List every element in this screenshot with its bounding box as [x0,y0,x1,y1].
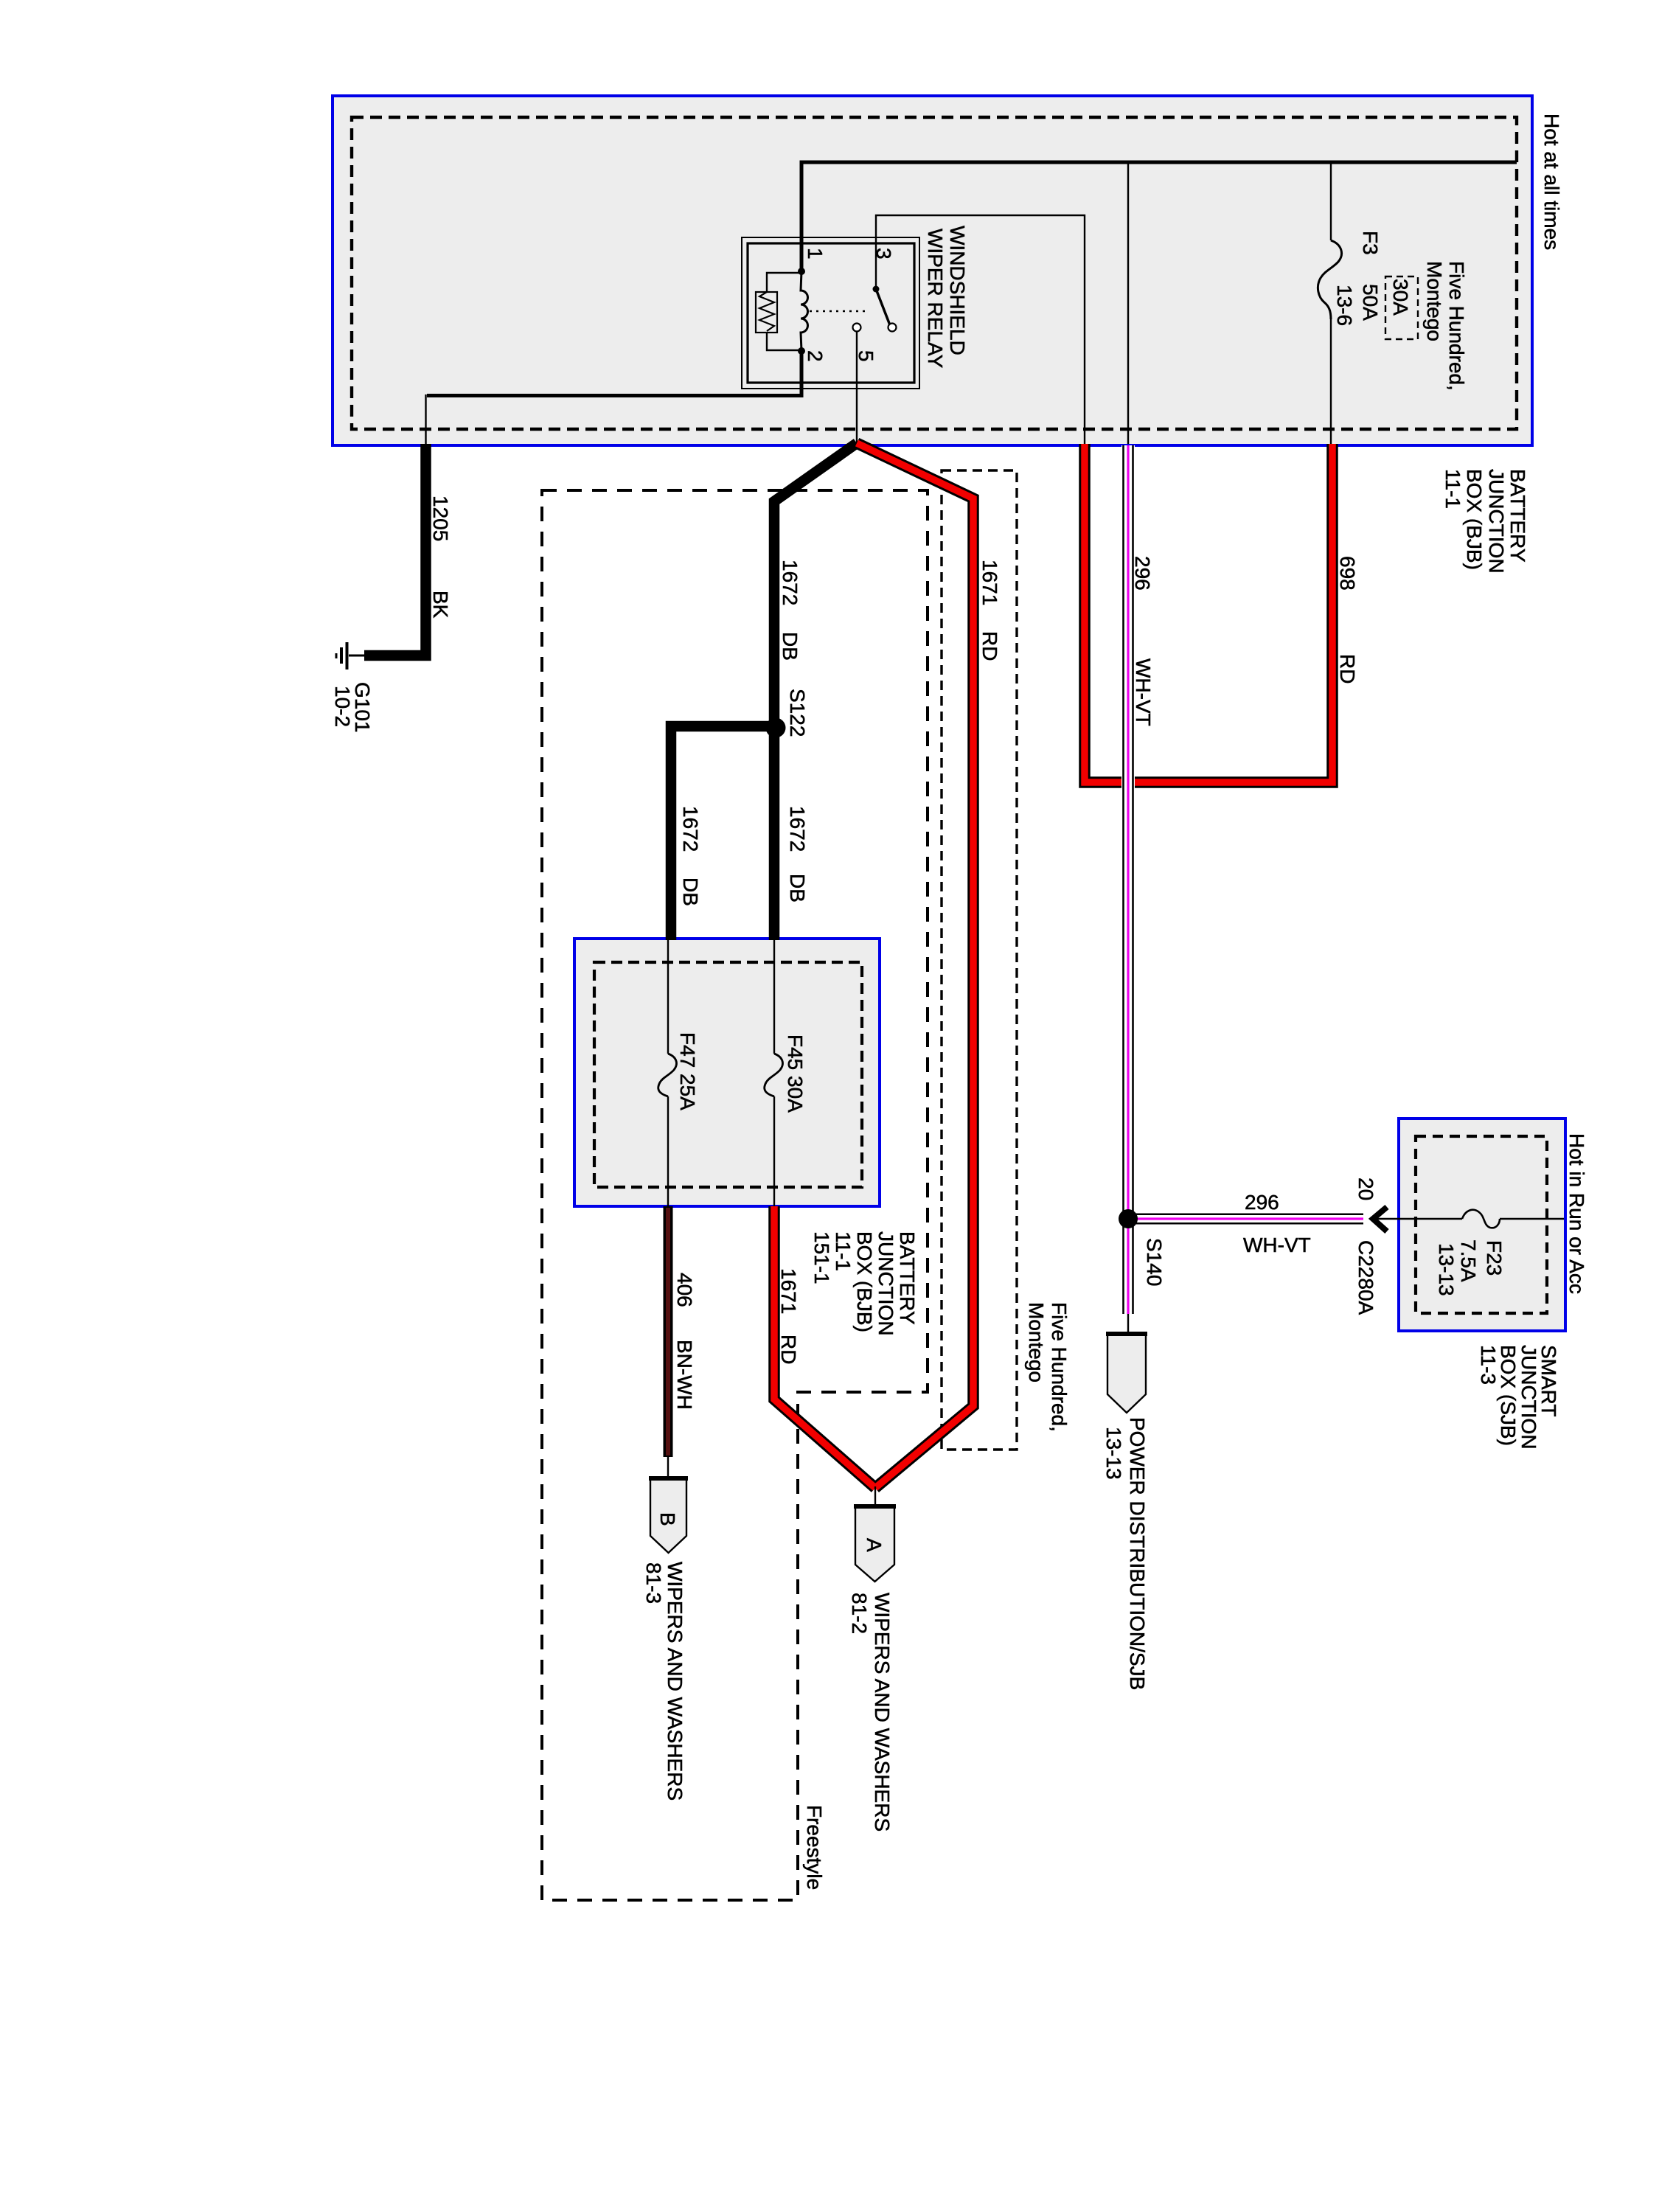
SJB dashed inner border [1416,1136,1547,1313]
svg-text:5: 5 [855,350,877,362]
svg-text:1: 1 [804,248,827,260]
wire 1671 RD right core [857,443,973,1488]
svg-text:296: 296 [1245,1191,1279,1214]
wire pin2 to ground exit [427,352,801,396]
wire 296 WH-VT magenta stripe [1127,445,1129,1314]
Five Hundred Montego dashed box [942,470,1017,1450]
relay terminal dot pin2 [798,347,805,355]
battery junction box BJB (gray box) [333,96,1532,445]
svg-text:7.5A: 7.5A [1457,1239,1480,1282]
wire 296 WH-VT left black line [1122,445,1124,1314]
relay resistor R [756,292,777,333]
svg-text:11-3: 11-3 [1477,1345,1500,1385]
svg-text:1672: 1672 [679,806,702,852]
svg-text:296: 296 [1131,556,1154,591]
svg-text:2: 2 [804,350,827,362]
Freestyle dashed box [542,490,928,1900]
fuse box dashed inner border [594,962,862,1187]
junction S122 [766,718,786,738]
smart junction box SJB (gray box) [1399,1119,1565,1331]
connector arrow B [650,1478,686,1553]
svg-text:1671: 1671 [777,1268,800,1314]
svg-text:JUNCTION: JUNCTION [1485,469,1508,574]
wire 406 BN-WH casing [664,1206,673,1457]
fuse F47 25A [658,1054,677,1096]
wire 698 RD casing [1085,444,1332,782]
connector arrow POWER DISTRIBUTION [1107,1334,1146,1413]
svg-text:C2280A: C2280A [1354,1240,1377,1315]
svg-text:WH-VT: WH-VT [1132,658,1155,726]
wire F3 branch bottom [1330,319,1332,444]
svg-text:151-1: 151-1 [810,1231,833,1284]
svg-text:BATTERY: BATTERY [1506,469,1529,563]
svg-text:S122: S122 [786,689,809,737]
svg-text:698: 698 [1336,556,1359,591]
wire 1671 RD left casing [774,1206,875,1488]
wire 296 WH-VT white underlay [1121,445,1135,1314]
svg-text:Hot at all times: Hot at all times [1540,114,1563,250]
wire pin5 down [856,331,858,443]
svg-text:F47 25A: F47 25A [676,1032,699,1110]
wire S140 to arrow thin [1127,1314,1129,1334]
relay pin5 circle [853,324,861,332]
fuse box BJB second (gray box) [574,939,880,1206]
svg-text:DB: DB [679,877,702,906]
fuse F45 30A [765,1054,783,1096]
svg-text:Freestyle: Freestyle [803,1805,826,1890]
wire F47 inside fusebox [667,939,669,1054]
svg-text:BK: BK [429,591,452,619]
svg-text:Montego: Montego [1025,1302,1048,1382]
wire 296 WH-VT horizontal top black [1124,1213,1364,1215]
svg-text:F23: F23 [1483,1240,1506,1276]
svg-text:WIPER RELAY: WIPER RELAY [924,229,947,369]
wire pin1 feed (hot at all times) [801,162,1517,271]
svg-text:81-2: 81-2 [848,1593,871,1634]
wire F45 lower [773,1096,775,1206]
svg-text:JUNCTION: JUNCTION [1517,1345,1540,1450]
wire F3 branch top [1330,162,1332,240]
svg-text:10-2: 10-2 [331,686,354,727]
svg-text:DB: DB [786,874,809,902]
svg-text:RD: RD [1336,654,1359,684]
connector C2280A arrowhead [1373,1207,1387,1231]
svg-text:11-1: 11-1 [1441,469,1464,509]
svg-text:BOX (BJB): BOX (BJB) [1463,469,1486,570]
wire 296 WH-VT horizontal magenta stripe [1128,1217,1363,1220]
svg-text:3: 3 [872,248,895,260]
svg-text:WH-VT: WH-VT [1243,1234,1311,1256]
connector arrow A [855,1506,894,1582]
wire 296 inside BJB [1127,162,1129,444]
relay inner box [748,243,914,383]
svg-text:F3: F3 [1359,231,1382,255]
svg-text:1672: 1672 [779,560,801,605]
svg-text:JUNCTION: JUNCTION [874,1231,897,1336]
wire 1671 to arrow A thin [874,1486,876,1506]
wire 1671 RD right casing [857,443,973,1488]
svg-text:Montego: Montego [1423,261,1446,341]
wire 406 to arrow B thin [667,1457,669,1479]
relay resistor leads [767,273,801,292]
svg-text:S140: S140 [1143,1238,1166,1286]
svg-text:406: 406 [673,1273,696,1307]
wire 1205 BK thick [364,444,426,655]
svg-text:DB: DB [779,632,801,661]
dashed box 30A [1385,276,1418,339]
wire into SJB [1373,1218,1462,1220]
relay switch open contact circle [888,324,897,332]
BJB dashed inner border [352,117,1517,429]
wire F23 to box edge [1500,1218,1564,1220]
svg-text:Five Hundred,: Five Hundred, [1445,261,1468,391]
svg-text:POWER DISTRIBUTION/SJB: POWER DISTRIBUTION/SJB [1126,1417,1149,1690]
svg-text:1671: 1671 [978,560,1001,605]
svg-text:WINDSHIELD: WINDSHIELD [946,226,969,355]
svg-text:13-13: 13-13 [1102,1427,1125,1480]
wire 1672 DB main [774,443,857,940]
svg-text:RD: RD [978,631,1001,661]
svg-text:A: A [863,1538,886,1552]
svg-text:30A: 30A [1389,279,1412,316]
wire 296 WH-VT horizontal bottom black [1133,1222,1364,1225]
relay terminal dot pin1 [798,268,805,275]
wire 296 WH-VT right black line [1132,445,1134,1314]
svg-text:50A: 50A [1359,284,1382,321]
relay coil [801,271,808,351]
wire 1671 RD left core [774,1206,875,1488]
wire pin3 to BJB edge [876,215,1085,444]
svg-text:BATTERY: BATTERY [896,1231,919,1325]
svg-text:13-13: 13-13 [1435,1243,1458,1296]
svg-text:81-3: 81-3 [642,1562,665,1604]
wire ground exit thin [425,394,426,447]
wire 698 RD core [1085,444,1332,782]
relay switch blade [876,289,890,325]
relay armature dashed link [810,310,866,313]
svg-text:WIPERS AND WASHERS: WIPERS AND WASHERS [664,1562,686,1801]
svg-text:11-1: 11-1 [832,1231,855,1271]
svg-text:Five Hundred,: Five Hundred, [1048,1302,1071,1432]
fuse F3 [1318,240,1341,319]
svg-text:BN-WH: BN-WH [673,1340,696,1410]
relay switch contact dot [873,286,880,293]
svg-text:20: 20 [1354,1178,1377,1200]
wire F47 lower [667,1096,669,1206]
svg-text:B: B [656,1512,679,1526]
svg-text:F45 30A: F45 30A [784,1034,807,1113]
svg-text:13-6: 13-6 [1333,285,1356,326]
wire F45 inside fusebox [773,939,775,1054]
svg-text:Hot in Run or Acc: Hot in Run or Acc [1565,1133,1588,1294]
ground G101 [349,655,366,657]
svg-text:WIPERS AND WASHERS: WIPERS AND WASHERS [871,1593,894,1832]
relay outer box [742,237,919,389]
svg-text:RD: RD [777,1335,800,1364]
svg-text:BOX (BJB): BOX (BJB) [853,1231,876,1332]
svg-text:1672: 1672 [786,806,809,852]
wire 406 BN-WH core [666,1208,670,1455]
junction S140 [1119,1209,1138,1228]
fuse F23 [1462,1210,1500,1228]
svg-text:1205: 1205 [429,495,452,541]
wire 1672 DB branch to F47 [671,726,776,940]
